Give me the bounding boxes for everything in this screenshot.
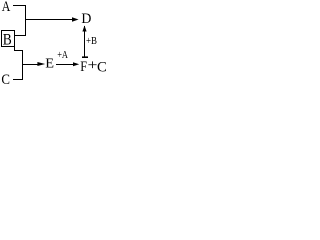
svg-text:E: E: [45, 57, 54, 72]
svg-text:F: F: [80, 59, 87, 75]
svg-text:C: C: [1, 72, 10, 87]
svg-text:+: +: [88, 58, 98, 74]
svg-text:+B: +B: [86, 36, 97, 47]
svg-text:A: A: [2, 0, 11, 15]
svg-text:+A: +A: [57, 50, 68, 61]
svg-text:D: D: [81, 11, 91, 27]
svg-text:C: C: [97, 59, 107, 75]
svg-text:B: B: [3, 32, 12, 49]
